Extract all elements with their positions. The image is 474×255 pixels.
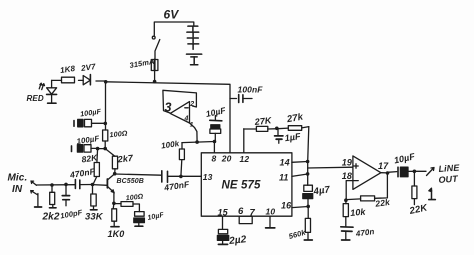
svg-text:10k: 10k — [350, 207, 367, 218]
svg-text:2: 2 — [189, 101, 194, 108]
svg-text:100Ω: 100Ω — [109, 128, 128, 139]
svg-text:17: 17 — [378, 161, 389, 171]
svg-text:20: 20 — [221, 154, 232, 164]
svg-text:6V: 6V — [164, 8, 180, 22]
svg-text:6: 6 — [238, 206, 244, 217]
svg-text:33K: 33K — [85, 212, 104, 223]
svg-text:1: 1 — [190, 122, 194, 129]
svg-text:13: 13 — [203, 172, 213, 182]
svg-text:11: 11 — [279, 173, 289, 183]
svg-text:15: 15 — [218, 208, 229, 218]
svg-text:7: 7 — [250, 208, 256, 219]
svg-text:2µ2: 2µ2 — [228, 234, 248, 247]
svg-text:19: 19 — [342, 158, 352, 168]
svg-text:100nF: 100nF — [238, 85, 264, 95]
svg-text:LiNE: LiNE — [438, 162, 460, 173]
svg-text:RED: RED — [27, 94, 44, 103]
svg-text:NE 575: NE 575 — [222, 180, 261, 192]
svg-text:18: 18 — [342, 171, 352, 181]
svg-text:1K0: 1K0 — [108, 229, 125, 239]
svg-text:OUT: OUT — [438, 174, 459, 185]
svg-text:IN: IN — [12, 184, 23, 195]
svg-text:27K: 27K — [253, 115, 273, 127]
svg-text:14: 14 — [280, 158, 290, 168]
svg-text:BC550B: BC550B — [117, 178, 144, 185]
svg-text:8: 8 — [212, 154, 217, 164]
svg-text:3: 3 — [165, 101, 172, 115]
svg-text:10: 10 — [266, 207, 276, 217]
svg-text:2k7: 2k7 — [116, 153, 134, 165]
svg-text:2k2: 2k2 — [42, 212, 60, 223]
svg-text:16: 16 — [281, 201, 292, 211]
svg-text:12: 12 — [240, 154, 250, 164]
svg-text:Mic.: Mic. — [8, 173, 28, 184]
svg-text:4: 4 — [184, 116, 189, 123]
